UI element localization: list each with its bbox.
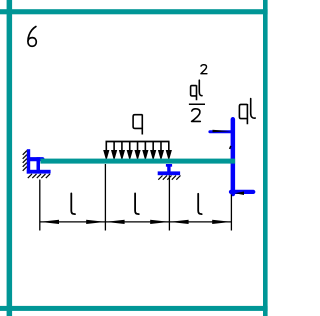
label ql (force): q (239, 104, 247, 124)
left support floor hatching (28, 174, 50, 178)
dimension arrowheads (40, 220, 232, 224)
dimension extension line at load start (104, 164, 106, 231)
label 6 (problem number) (28, 27, 36, 47)
dimension extension line at left support (39, 180, 41, 231)
left support: floor bar (27, 170, 51, 174)
moment arrow ql^2/2 shaft (blue) (210, 130, 231, 133)
dimension label l span 1 (71, 193, 75, 214)
left support: link bar to beam (30, 157, 43, 161)
force ql foot shaft (blue) (231, 190, 253, 194)
label ql^2/2 fraction: bar (189, 103, 205, 105)
label ql^2/2 fraction: numerator l (199, 80, 202, 96)
beam (teal horizontal member) (40, 159, 235, 164)
dimension line (40, 221, 232, 223)
label ql^2/2 fraction: exponent 2 (201, 65, 207, 74)
dimension label l span 3 (198, 194, 202, 214)
frame border bottom line (0, 306, 268, 311)
middle support: stem (167, 164, 170, 172)
middle support: top flange (166, 164, 172, 167)
label ql^2/2 fraction: numerator q (191, 85, 197, 100)
tick on column (230, 146, 231, 149)
left support: slider bar (37, 157, 41, 173)
left support wall hatching (23, 151, 27, 171)
frame border right line (263, 0, 268, 316)
dimension extension line at right column (230, 195, 232, 231)
middle support hatching (158, 176, 180, 180)
label q (distributed load) (133, 114, 142, 134)
frame border top line (0, 9, 268, 14)
dimension extension line at middle support (168, 175, 170, 230)
right column (rigid bracket) (231, 119, 236, 194)
force ql arrow head (black) (235, 192, 244, 196)
left support: wall bar (27, 149, 30, 173)
label ql (force): l (251, 99, 256, 119)
frame border left line (7, 0, 13, 316)
distributed load arrows (104, 142, 171, 159)
distributed load q top line (106, 141, 170, 143)
moment arrow ql^2/2 head (black) (213, 130, 231, 133)
dimension label l span 2 (135, 193, 139, 214)
middle support: foot (158, 171, 180, 175)
label ql^2/2 fraction: denominator 2 (192, 109, 201, 122)
